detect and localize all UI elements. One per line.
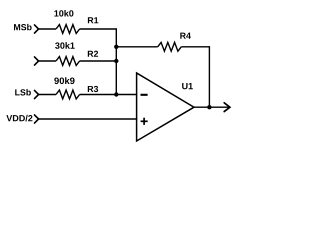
resistor R2 [56, 57, 80, 66]
resistor R1 [56, 25, 80, 34]
junction dot output node [207, 105, 211, 109]
op-amp U1 body [137, 73, 194, 141]
input port MSb [35, 25, 39, 33]
wire summing bus vertical [115, 28, 117, 94]
input port bit 2 [35, 57, 39, 65]
wire port 2 to R2 [39, 60, 56, 62]
output arrow head [224, 103, 230, 112]
wire R2 to bus [80, 60, 117, 62]
input port LSb [35, 90, 39, 98]
resistor R4 [158, 42, 182, 51]
wire LSb port to R3 [39, 94, 56, 96]
value label 90k9 [54, 77, 74, 84]
wire R4 to feedback corner [181, 46, 209, 48]
wire R3 to op-amp inverting input [80, 94, 138, 96]
junction dot feedback tap [114, 45, 118, 49]
wire R1 to bus corner [80, 28, 117, 30]
wire op-amp output [194, 106, 230, 108]
op-amp inverting pin minus sign [141, 94, 148, 96]
op-amp non-inverting pin plus sign [141, 118, 148, 125]
junction dot inverting node [114, 92, 118, 96]
wire MSb port to R1 [39, 28, 56, 30]
value label 10k0 [54, 10, 73, 17]
label R2 [88, 51, 98, 57]
wire feedback vertical to output node [208, 46, 210, 107]
junction dot R2/bus [114, 59, 118, 63]
wire VDD/2 to op-amp non-inverting input [39, 118, 138, 120]
label R3 [88, 86, 98, 92]
node MSb label [14, 24, 32, 30]
node LSb label [15, 89, 31, 95]
label R1 [88, 17, 98, 23]
wire tap to R4 [116, 46, 157, 48]
label R4 [180, 33, 191, 39]
label U1 [182, 83, 193, 89]
node VDD/2 label [6, 115, 32, 122]
resistor R3 [56, 90, 80, 99]
input port VDD/2 [35, 115, 39, 123]
value label 30k1 [55, 42, 75, 49]
